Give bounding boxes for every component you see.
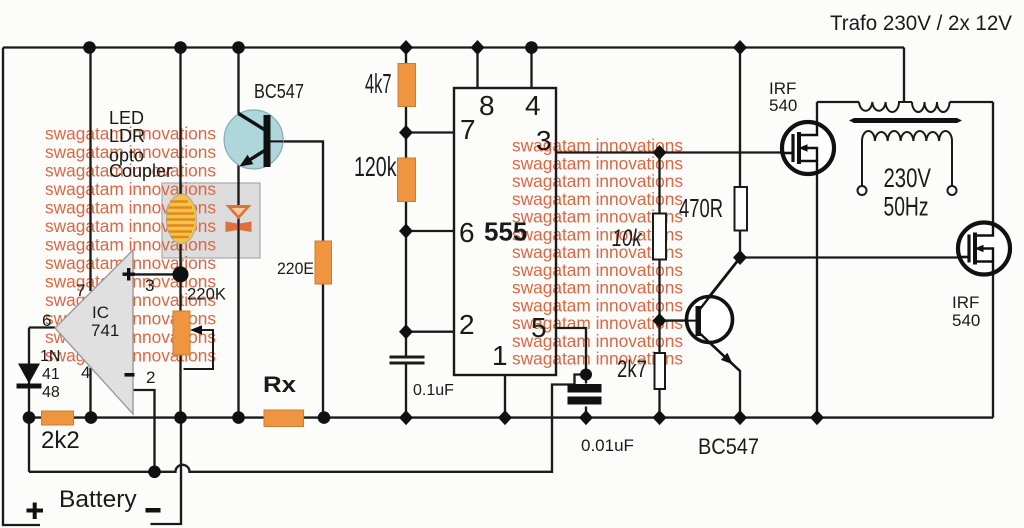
wire MOSFET1 drain to primary left	[816, 102, 818, 123]
svg-text:540: 540	[769, 96, 797, 115]
wire transformer center tap	[903, 48, 905, 103]
node top rail x=180.5	[174, 41, 187, 54]
wire 4k7/120k chain x=406	[405, 48, 407, 418]
svg-text:4k7: 4k7	[365, 68, 392, 99]
op-amp U1 IC741 triangle	[55, 250, 133, 414]
node ground rail diode	[23, 411, 36, 424]
node pin7 junction	[399, 125, 413, 140]
svg-text:IC: IC	[92, 303, 109, 322]
wire 555 pin1 to ground	[504, 375, 506, 418]
svg-text:220K: 220K	[187, 286, 226, 304]
primary winding left half	[859, 102, 912, 112]
node 555 pin4 top rail	[525, 41, 538, 54]
resistor Rx	[264, 410, 304, 427]
LED inside optocoupler	[226, 205, 252, 232]
svg-text:220E: 220E	[277, 259, 314, 278]
svg-text:0.1uF: 0.1uF	[413, 382, 454, 399]
diode 1N4148	[18, 364, 40, 384]
svg-text:6: 6	[42, 311, 51, 330]
svg-text:120k: 120k	[354, 151, 397, 182]
svg-text:LDR: LDR	[109, 126, 145, 146]
wire primary right lead	[950, 101, 994, 103]
wire gate line to MOSFET2	[740, 256, 959, 258]
wire top rail	[3, 46, 904, 48]
secondary terminal right	[948, 186, 957, 195]
wire LDR branch x=180.5	[179, 48, 181, 418]
Q2 collector lead	[700, 258, 740, 309]
wire feedback line to 555 pin5 with jump-over hump	[29, 375, 585, 472]
wire 10k 2k7 chain x=659.5	[658, 153, 660, 418]
wire op-amp pin7 supply	[89, 48, 91, 292]
svg-text:3: 3	[145, 276, 154, 295]
wire BC547 Q2 base stub	[660, 319, 691, 321]
secondary winding	[862, 131, 952, 186]
wire op-amp pin4 to ground rail	[89, 368, 91, 418]
Q1 base bar	[264, 115, 271, 167]
wire op-amp pin3 input stub	[133, 273, 181, 275]
svg-text:4: 4	[525, 90, 541, 121]
svg-text:IRF: IRF	[952, 293, 979, 312]
svg-text:540: 540	[952, 311, 980, 330]
svg-text:741: 741	[91, 321, 119, 340]
Q2 base lead	[688, 320, 696, 322]
resistor 120k	[398, 158, 416, 202]
wire primary left lead	[817, 101, 859, 103]
node ground rail pin1	[498, 410, 512, 425]
svg-text:Trafo 230V / 2x 12V: Trafo 230V / 2x 12V	[830, 12, 1012, 35]
node op-amp plus input	[173, 266, 189, 282]
svg-text:10k: 10k	[612, 225, 643, 252]
wire op-amp output to diode	[29, 328, 55, 418]
svg-text:BC547: BC547	[698, 434, 759, 459]
resistor 470R	[735, 187, 748, 231]
LDR inside optocoupler	[167, 195, 197, 244]
node top rail x=238.5	[232, 41, 245, 54]
Q2 base bar	[696, 306, 702, 336]
node ground rail x=238.5	[232, 411, 245, 424]
node ground rail MOSFET1 source	[810, 410, 824, 425]
svg-text:50Hz: 50Hz	[884, 192, 929, 222]
node gate2 junction	[733, 250, 747, 265]
node ground rail x=180.5	[174, 411, 187, 424]
wire 555 pin8 stub	[476, 48, 478, 89]
potentiometer 220K wiper arrow	[184, 330, 214, 369]
node top rail x=89.5	[83, 41, 96, 54]
node ground rail 0.1uF	[399, 410, 413, 425]
svg-text:7: 7	[76, 281, 85, 300]
node ground rail 220E	[318, 411, 331, 424]
svg-text:swagatam innovations: swagatam innovations	[45, 179, 216, 199]
label op-amp minus	[125, 373, 135, 377]
potentiometer 220K body	[173, 311, 190, 355]
capacitor 0.01uF	[568, 384, 602, 393]
node ground rail 0.01uF	[579, 410, 593, 425]
node pin3 junction	[653, 145, 667, 160]
svg-text:LED: LED	[109, 108, 144, 128]
node ground rail Q2 emitter	[733, 410, 747, 425]
resistor 10k	[653, 214, 666, 260]
svg-text:470R: 470R	[679, 195, 723, 223]
wire Q2 collector diagonal	[700, 258, 740, 309]
svg-text:2: 2	[459, 309, 475, 340]
node top rail 4k7	[399, 40, 413, 55]
Q1 emitter	[248, 151, 265, 162]
svg-text:4: 4	[81, 363, 90, 382]
Q2 emitter lead	[700, 334, 740, 372]
node pin6 junction	[399, 224, 413, 239]
svg-text:5: 5	[531, 312, 547, 343]
junction diamonds (right section)	[399, 40, 824, 425]
wire BC547 base to 220E	[271, 141, 324, 241]
wire MOSFET1 source to ground rail	[816, 173, 818, 418]
svg-text:1N: 1N	[40, 348, 60, 365]
wire LED / BC547 branch x=238.5	[237, 48, 239, 418]
Q1 collector	[239, 114, 266, 131]
wire left border and battery plus lead	[3, 48, 40, 526]
MOSFET M1 IRF540	[782, 122, 834, 174]
node Q2 base junction	[653, 313, 667, 328]
resistor 2k7	[655, 353, 666, 389]
node top rail pin8	[471, 40, 485, 55]
IC 555 box	[454, 88, 556, 375]
wire op-amp pin2 stub down to feedback line	[133, 390, 155, 472]
svg-text:2k7: 2k7	[617, 356, 647, 383]
watermark middle column	[512, 136, 683, 369]
node ground rail 2k7	[653, 410, 667, 425]
wire 220E to ground rail	[322, 284, 324, 418]
MOSFET M2 IRF540	[958, 223, 1010, 275]
node ground rail 2k2 right	[85, 411, 98, 424]
svg-text:555: 555	[484, 217, 527, 247]
svg-text:3: 3	[536, 125, 552, 156]
wire 555 pin2 stub	[406, 331, 454, 333]
label battery plus	[27, 509, 44, 513]
svg-text:48: 48	[42, 384, 60, 401]
wire 555 pin7 stub	[406, 131, 454, 133]
node 0.01uF top	[580, 369, 592, 381]
svg-text:41: 41	[42, 366, 60, 383]
secondary terminal left	[858, 186, 867, 195]
wire MOSFET2 source to ground rail	[992, 274, 994, 418]
wire 555 pin3 output to MOSFET1 gate	[556, 151, 783, 153]
optocoupler box U2	[162, 183, 260, 258]
svg-text:6: 6	[459, 217, 475, 248]
node feedback line pin2	[148, 466, 161, 479]
svg-text:1: 1	[492, 340, 508, 371]
transistor Q1 BC547 (opto driver)	[224, 110, 283, 169]
transformer T1	[859, 102, 952, 186]
wire battery minus branch	[151, 418, 182, 524]
svg-text:7: 7	[460, 114, 476, 145]
svg-text:BC547: BC547	[254, 81, 304, 103]
wire 555 pin4 stub	[530, 48, 532, 89]
svg-text:2k2: 2k2	[41, 427, 80, 454]
resistor 2k2	[42, 411, 74, 425]
resistor 220E	[315, 241, 332, 284]
node top rail 470R branch	[733, 40, 747, 55]
svg-text:0.01uF: 0.01uF	[581, 436, 634, 455]
wire Q2 emitter diagonal to ground	[700, 334, 740, 418]
wire MOSFET2 drain	[992, 102, 994, 223]
resistor 4k7	[398, 64, 416, 107]
wire 555 pin5 to 0.01uF	[556, 328, 586, 418]
svg-text:Coupler: Coupler	[109, 161, 172, 181]
svg-text:Battery: Battery	[59, 486, 137, 513]
capacitor 0.1uF	[390, 357, 425, 363]
wire bottom ground rail	[29, 416, 993, 418]
wire 470R branch x=740	[739, 48, 741, 258]
label battery minus	[146, 508, 161, 513]
svg-text:8: 8	[479, 90, 495, 121]
transformer core	[849, 118, 962, 123]
svg-text:2: 2	[146, 368, 155, 387]
watermark left column	[45, 124, 216, 366]
transistor Q2 BC547 (MOSFET driver)	[687, 297, 733, 343]
svg-text:230V: 230V	[884, 163, 932, 193]
wire 555 pin6 stub	[406, 230, 454, 232]
Q1 base lead	[271, 140, 284, 142]
primary winding right half	[912, 102, 950, 112]
node pin2 junction	[399, 324, 413, 339]
label op-amp plus	[123, 273, 136, 276]
svg-text:Rx: Rx	[263, 372, 297, 397]
wire diode to feedback line	[28, 418, 30, 472]
